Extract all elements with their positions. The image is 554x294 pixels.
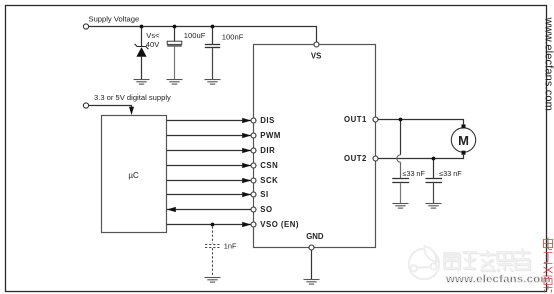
svg-text:SO: SO <box>260 205 272 214</box>
svg-text:PWM: PWM <box>260 131 281 140</box>
svg-text:Vs<: Vs< <box>146 31 160 40</box>
svg-text:GND: GND <box>306 232 324 241</box>
svg-text:SCK: SCK <box>260 176 278 185</box>
svg-text:VS: VS <box>311 52 321 61</box>
svg-text:100uF: 100uF <box>184 31 206 40</box>
svg-text:SI: SI <box>260 190 268 199</box>
svg-text:3.3 or 5V digital supply: 3.3 or 5V digital supply <box>94 93 171 102</box>
svg-text:100nF: 100nF <box>222 32 244 41</box>
svg-text:≤33 nF: ≤33 nF <box>439 169 462 178</box>
svg-text:DIR: DIR <box>260 146 275 155</box>
svg-text:40V: 40V <box>146 40 160 49</box>
svg-text:VSO (EN): VSO (EN) <box>260 220 299 229</box>
svg-text:OUT1: OUT1 <box>344 115 367 124</box>
svg-text:1nF: 1nF <box>224 241 237 250</box>
svg-text:µC: µC <box>128 171 139 180</box>
svg-text:OUT2: OUT2 <box>344 154 367 163</box>
svg-text:www.elecfans.com: www.elecfans.com <box>543 17 554 112</box>
svg-text:Supply Voltage: Supply Voltage <box>89 14 140 23</box>
svg-text:DIS: DIS <box>260 116 275 125</box>
svg-text:www.elecfans.com: www.elecfans.com <box>445 274 551 286</box>
svg-text:CSN: CSN <box>260 161 278 170</box>
svg-text:≤33 nF: ≤33 nF <box>403 169 426 178</box>
svg-text:M: M <box>458 133 469 148</box>
